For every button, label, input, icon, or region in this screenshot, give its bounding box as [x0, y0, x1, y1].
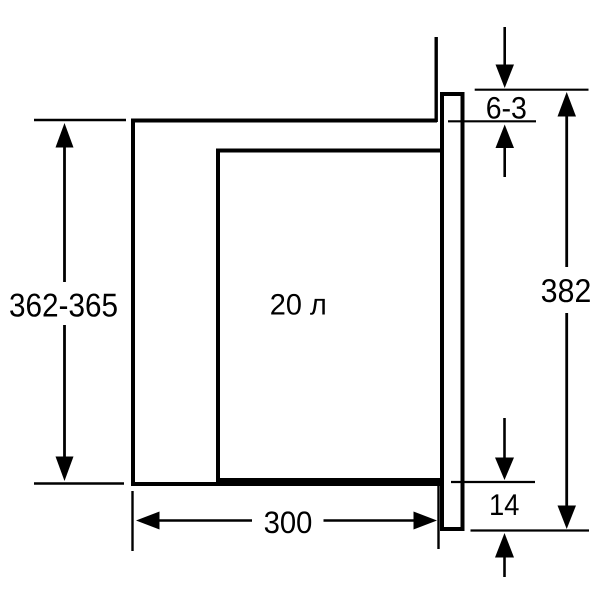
- dim 362-365: bottom tick: [34, 482, 124, 484]
- dim 300: line right segment: [324, 519, 416, 521]
- dim 382: down arrow head: [558, 506, 577, 530]
- dim 14: upper line: [451, 481, 535, 483]
- dim 14: down arrow head: [495, 458, 514, 481]
- dim 300: right arrow: [414, 512, 438, 530]
- dim 362-365: top tick: [34, 119, 126, 121]
- dim 362-365: line upper: [63, 146, 66, 282]
- dim 14: up arrow tail: [503, 556, 506, 577]
- dim 362-365: line lower: [63, 325, 66, 458]
- cabinet front edge line above niche: [435, 37, 438, 122]
- dim 14: up arrow head: [495, 533, 514, 558]
- cavity inner rectangle: [218, 151, 442, 481]
- dim 382: line upper: [565, 115, 568, 267]
- dim 300: line left segment: [158, 519, 252, 521]
- dim 6-3: lower extension line: [448, 120, 536, 122]
- dim 362-365: down arrow: [56, 457, 74, 482]
- dim 6-3: upper extension line: [475, 89, 589, 91]
- dim 300: left extension line: [131, 491, 133, 551]
- dim 14: down arrow tail: [503, 418, 506, 459]
- dim 14: label: [491, 494, 518, 515]
- dim 382: line lower: [565, 313, 568, 507]
- dim 362-365: label: [10, 294, 117, 317]
- microwave body outline (niche): top, left, bottom: [133, 121, 440, 485]
- dim 382: up arrow head: [558, 92, 577, 117]
- dim 6-3: up arrow head: [496, 125, 515, 149]
- dim 6-3: down arrow tail: [503, 27, 506, 66]
- dim 6-3: down arrow head: [496, 65, 515, 89]
- front frame panel: [442, 94, 463, 529]
- volume label 20 L: [271, 294, 325, 315]
- dim 382: label: [542, 279, 590, 302]
- dim 362-365: up arrow: [56, 123, 74, 148]
- dim 300: right extension line: [437, 486, 439, 549]
- dim 6-3: up arrow tail: [503, 147, 506, 177]
- dim 300: label: [265, 511, 311, 533]
- dim 6-3: label: [487, 97, 525, 119]
- dim 14: lower line: [471, 529, 590, 531]
- dim 300: left arrow: [136, 512, 160, 530]
